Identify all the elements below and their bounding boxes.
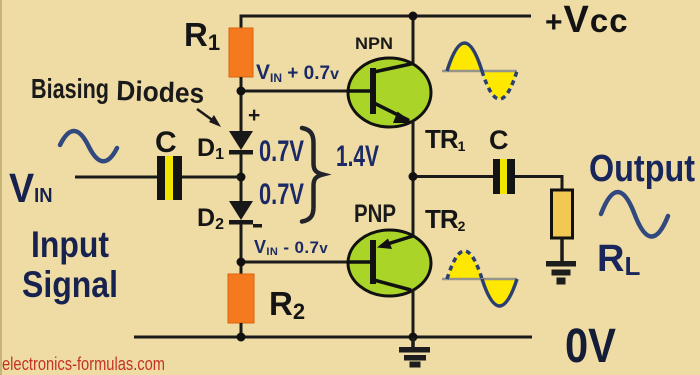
wire bottom rail 0V [134, 336, 532, 339]
transistor TR1 NPN [348, 58, 431, 127]
svg-text:Diodes: Diodes [116, 75, 205, 109]
node output junction [409, 172, 418, 181]
svg-text:0.7V: 0.7V [259, 178, 304, 211]
PNP output waveform [442, 251, 517, 306]
wire NPN base [241, 90, 371, 93]
arrow to diodes [197, 109, 221, 127]
capacitor C output [493, 159, 515, 194]
wire R1 bottom to D1 [240, 77, 243, 132]
NPN output waveform [442, 43, 517, 99]
wire VIN to C [75, 176, 157, 179]
input sine wave [60, 131, 117, 161]
svg-text:Signal: Signal [22, 264, 118, 305]
svg-text:C: C [155, 126, 177, 159]
svg-text:+Vcc: +Vcc [545, 0, 629, 41]
ground bottom [399, 337, 430, 368]
wire PNP base [241, 261, 371, 264]
wire top rail +Vcc [241, 15, 531, 18]
wire C to diode chain [182, 176, 241, 179]
output wire right with corner [515, 177, 562, 191]
wire D1 to D2 [240, 153, 243, 202]
node bottom rail [409, 333, 418, 342]
svg-text:Output: Output [589, 148, 695, 190]
output wire left [413, 175, 493, 178]
svg-text:Biasing: Biasing [31, 73, 109, 104]
svg-text:0.7V: 0.7V [259, 135, 304, 168]
node top rail [409, 12, 418, 21]
svg-text:C: C [489, 125, 509, 155]
wire NPN collector from rail [412, 16, 415, 64]
wire PNP collector to rail [412, 290, 415, 338]
svg-text:electronics-formulas.com: electronics-formulas.com [2, 354, 165, 374]
minus sign below D2 [253, 224, 262, 228]
node R2 bottom rail [237, 333, 246, 342]
svg-text:VIN - 0.7v: VIN - 0.7v [254, 237, 328, 258]
wire NPN emitter to PNP emitter [412, 121, 415, 236]
node above R2 [237, 258, 246, 267]
svg-text:0V: 0V [565, 320, 616, 373]
svg-text:1.4V: 1.4V [336, 140, 379, 173]
wire D2 to R2 [240, 223, 243, 275]
node input junction [237, 173, 246, 182]
brace 1.4V [302, 128, 323, 222]
svg-text:PNP: PNP [354, 200, 396, 228]
resistor R1 [229, 28, 253, 77]
diode D1 [229, 131, 253, 155]
node below R1 [237, 87, 246, 96]
wire RL to ground [560, 238, 564, 262]
capacitor C input [157, 156, 182, 200]
svg-text:+: + [248, 104, 260, 127]
svg-text:Input: Input [31, 224, 109, 265]
diode D2 [229, 201, 253, 225]
resistor RL [552, 190, 573, 238]
resistor R2 [228, 274, 254, 323]
wire R1 top corner [240, 15, 243, 30]
svg-text:NPN: NPN [355, 34, 393, 53]
transistor TR2 PNP [348, 230, 431, 296]
ground RL [546, 261, 576, 285]
svg-text:VIN + 0.7v: VIN + 0.7v [256, 61, 339, 85]
wire R2 bottom [240, 323, 243, 338]
output sine wave [601, 192, 668, 237]
